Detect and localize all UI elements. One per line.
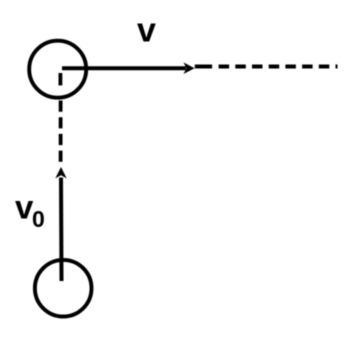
horizontal dashed trajectory [219, 65, 338, 69]
initial velocity vector v0: shaft [59, 178, 64, 282]
horizontal velocity vector v: shaft [62, 66, 186, 70]
horizontal velocity vector v: arrowhead [183, 62, 194, 74]
ball at bottom (initial position circle) [35, 260, 92, 317]
horizontal dashed trajectory: first long dash [195, 65, 212, 69]
vertical dashed trajectory [59, 101, 63, 166]
svg-text:v: v [137, 12, 156, 50]
ball at top (final position circle) [29, 41, 86, 98]
vertical dashed trajectory: first dash below top ball center [59, 73, 63, 85]
initial velocity vector v0: arrowhead [55, 167, 66, 178]
svg-text:0: 0 [32, 206, 45, 232]
